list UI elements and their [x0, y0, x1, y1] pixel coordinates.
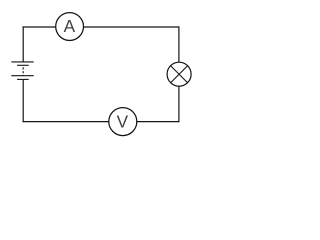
- battery BT1 long plate 2: [11, 75, 33, 77]
- battery BT1 short plate 2: [17, 78, 29, 80]
- wire bottom-left segment: [23, 121, 109, 123]
- wire left lower segment: [22, 80, 24, 122]
- wire bottom-right segment: [137, 121, 180, 123]
- wire top-left segment: [23, 26, 56, 28]
- svg-text:V: V: [117, 111, 129, 131]
- wire right lower segment: [178, 86, 180, 122]
- voltmeter U2 circle: [109, 108, 137, 136]
- wire top-right segment: [83, 26, 179, 28]
- ammeter U1 circle: [56, 13, 84, 41]
- svg-text:A: A: [64, 16, 76, 36]
- battery BT1 dashed link: [22, 67, 24, 76]
- lamp DS1 circle: [167, 62, 191, 86]
- battery BT1 long plate 1: [11, 61, 33, 63]
- battery BT1 short plate 1: [17, 64, 29, 66]
- wire right upper segment: [178, 26, 180, 62]
- lamp DS1 cross stroke 1: [171, 66, 188, 83]
- lamp DS1 cross stroke 2: [171, 66, 188, 83]
- wire left upper segment: [22, 26, 24, 62]
